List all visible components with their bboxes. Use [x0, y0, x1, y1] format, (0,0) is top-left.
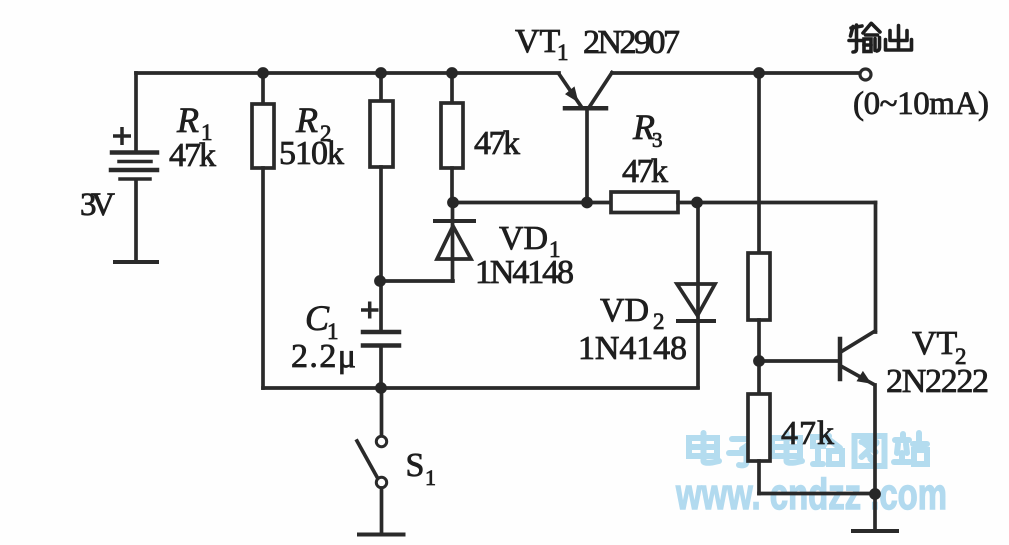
svg-text:S: S — [406, 447, 425, 484]
svg-text:VD: VD — [600, 292, 649, 329]
svg-text:510k: 510k — [279, 135, 344, 172]
svg-text:2N2907: 2N2907 — [583, 24, 680, 61]
svg-text:47k: 47k — [474, 125, 520, 162]
svg-text:VT: VT — [912, 325, 958, 362]
svg-text:2N2222: 2N2222 — [886, 363, 989, 400]
svg-text:2.2μ: 2.2μ — [291, 338, 356, 375]
svg-text:R: R — [295, 100, 318, 140]
svg-text:3V: 3V — [80, 187, 115, 223]
svg-text:R: R — [176, 100, 199, 140]
svg-text:(0~10mA): (0~10mA) — [853, 86, 989, 122]
svg-text:47k: 47k — [169, 137, 216, 174]
svg-text:1: 1 — [557, 40, 569, 65]
svg-text:1N4148: 1N4148 — [475, 254, 574, 291]
svg-text:1: 1 — [425, 465, 436, 490]
svg-text:1N4148: 1N4148 — [578, 330, 687, 367]
svg-text:VD: VD — [499, 220, 548, 257]
svg-text:3: 3 — [652, 128, 663, 152]
svg-text:VT: VT — [515, 23, 561, 60]
svg-text:47k: 47k — [781, 415, 834, 452]
svg-text:47k: 47k — [622, 153, 668, 190]
